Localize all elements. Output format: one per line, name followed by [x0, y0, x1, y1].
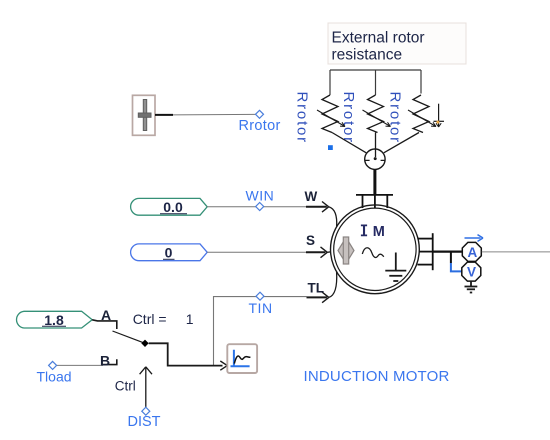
- node diamond Rrotor: [256, 110, 264, 118]
- switch arm: [113, 331, 146, 343]
- switch input B bracket: [103, 359, 117, 364]
- svg-text:Ctrl =: Ctrl =: [133, 311, 167, 327]
- machine input TL arrow: [307, 272, 337, 303]
- svg-text:I: I: [362, 224, 366, 240]
- Ctrl input arrow: [140, 367, 152, 408]
- ammeter A: [462, 242, 481, 261]
- control arrow terminal right of R3: [434, 104, 445, 127]
- svg-text:W: W: [305, 189, 318, 204]
- wire stator to ammeter: [433, 251, 462, 253]
- wire to Rrotor label: [173, 113, 256, 116]
- resistor R3 (variable, Rrotor): [408, 95, 436, 133]
- wire bus to rotor resistors: [330, 69, 421, 71]
- blue wire to voltmeter: [451, 263, 462, 271]
- svg-text:0.0: 0.0: [163, 199, 183, 215]
- resistor R1 (variable, Rrotor): [317, 95, 345, 133]
- svg-text:B: B: [100, 352, 110, 368]
- svg-text:1: 1: [186, 311, 194, 327]
- thick rotor lead: [373, 169, 376, 195]
- svg-text:Rrotor: Rrotor: [239, 118, 281, 134]
- wire junction down to voltmeter: [450, 252, 452, 263]
- resistor R2 (variable, Rrotor): [363, 95, 391, 133]
- wire 0 to S: [207, 251, 306, 253]
- switch pivot diamond: [141, 340, 148, 347]
- label Ctrl = 1: [133, 311, 194, 327]
- constant 0.0 (WIN source): [131, 198, 208, 215]
- brush terminal comb (top of machine): [356, 195, 393, 208]
- node diamond WIN: [256, 203, 264, 211]
- wire Tload to B: [57, 364, 103, 366]
- gray rotor glyph (diamond with bar): [338, 237, 354, 264]
- wire R3 tail to star point: [384, 133, 419, 153]
- svg-text:0: 0: [165, 245, 173, 261]
- wire drop to R3: [420, 70, 422, 94]
- wire 0.0 to W: [207, 206, 306, 208]
- wire drop to R1: [329, 70, 331, 95]
- svg-text:Rrotor: Rrotor: [294, 92, 311, 144]
- switch output wire: [149, 343, 223, 365]
- arrow into plot: [220, 361, 227, 370]
- svg-text:M: M: [373, 224, 385, 240]
- star point node (rotor external connection): [365, 149, 385, 169]
- machine input W arrow: [306, 202, 337, 228]
- svg-text:External rotor: External rotor: [332, 30, 425, 47]
- annotation box "External rotor resistance": [328, 23, 466, 64]
- svg-text:Tload: Tload: [37, 368, 72, 384]
- output wire from ammeter: [482, 251, 550, 253]
- svg-text:Rrotor: Rrotor: [387, 92, 404, 144]
- node diamond Tload: [49, 361, 57, 369]
- machine input S arrow: [306, 247, 331, 258]
- stator terminal comb (right of machine): [418, 233, 433, 270]
- blue flow arrow: [465, 235, 484, 242]
- wire TIN runs to TL: [214, 297, 307, 366]
- label I M: [361, 224, 385, 240]
- sine symbol inside machine: [362, 248, 384, 258]
- svg-text:S: S: [306, 233, 315, 248]
- svg-text:resistance: resistance: [332, 47, 403, 64]
- orange port marker: [437, 121, 440, 124]
- svg-text:V: V: [467, 265, 476, 280]
- plot/scope icon: [227, 344, 257, 373]
- svg-text:A: A: [468, 245, 478, 260]
- svg-text:DIST: DIST: [128, 414, 161, 430]
- ground symbol inside machine: [385, 253, 406, 282]
- svg-text:WIN: WIN: [246, 188, 275, 204]
- constant 0 (slip source): [131, 244, 208, 261]
- switch input A bracket: [92, 320, 117, 329]
- constant 1.8 (Tload source): [17, 311, 93, 328]
- node diamond TIN: [256, 292, 264, 300]
- svg-text:TIN: TIN: [249, 300, 273, 316]
- node diamond DIST: [142, 407, 150, 415]
- svg-text:1.8: 1.8: [44, 312, 64, 328]
- blue selection dot: [328, 145, 333, 150]
- svg-text:INDUCTION MOTOR: INDUCTION MOTOR: [304, 368, 450, 385]
- slider control for Rrotor: [133, 95, 156, 135]
- ground under voltmeter: [465, 281, 478, 293]
- svg-text:Ctrl: Ctrl: [115, 379, 136, 394]
- wire R1 tail to star point: [332, 133, 366, 153]
- wire drop to R2: [375, 70, 377, 95]
- induction machine IM body (double circle): [331, 205, 420, 294]
- svg-text:TL: TL: [308, 280, 325, 295]
- voltmeter V: [462, 262, 481, 281]
- svg-text:A: A: [101, 307, 111, 323]
- wire from slider: [155, 114, 173, 116]
- svg-text:Rrotor: Rrotor: [340, 92, 357, 144]
- wire R2 tail to star point: [375, 133, 377, 158]
